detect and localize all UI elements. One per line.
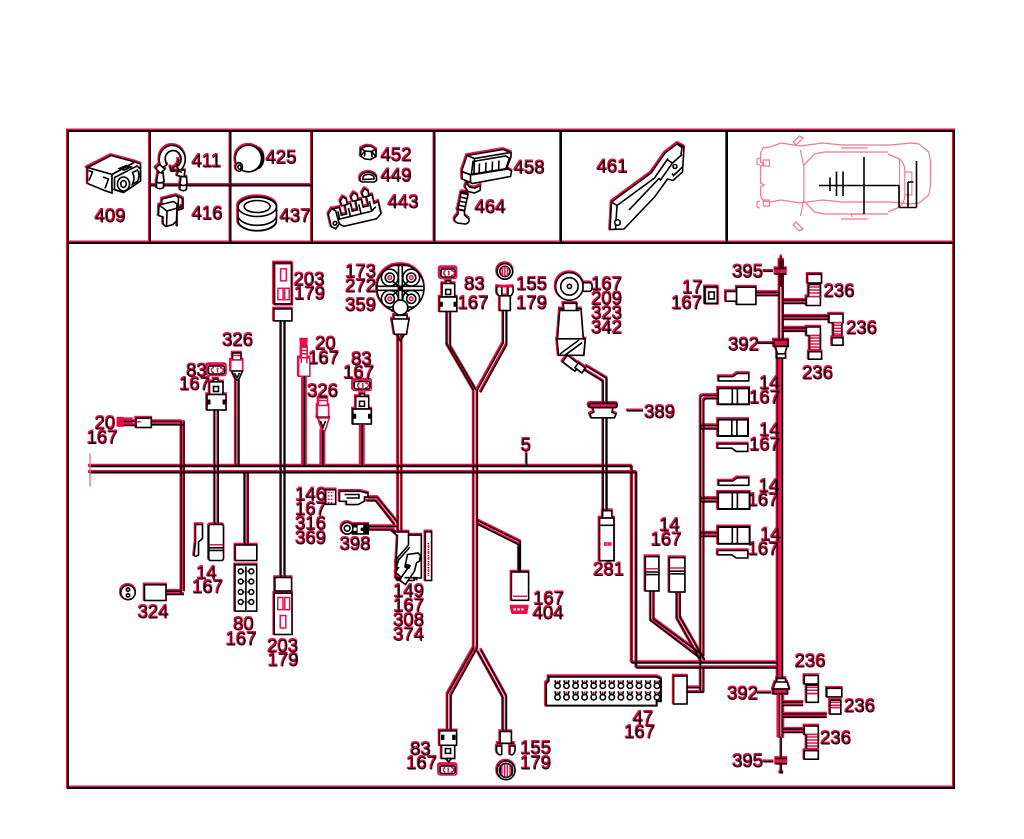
terminal ring 398 [341, 522, 368, 534]
svg-text:179: 179 [295, 283, 326, 304]
svg-text:236: 236 [847, 318, 878, 339]
connector 83/167 no.1 icon [207, 365, 226, 376]
connector into trunk (17/167) [726, 287, 780, 304]
svg-text:395: 395 [733, 751, 764, 772]
svg-text:167: 167 [226, 629, 257, 650]
frame: outer border [68, 131, 954, 788]
connector 326 no.1 [231, 353, 243, 380]
connector 83/167 no.2 icon [353, 380, 372, 391]
svg-text:389: 389 [645, 402, 676, 423]
stub to conn no.2 [701, 426, 719, 429]
svg-text:392: 392 [728, 683, 759, 704]
svg-text:236: 236 [824, 281, 855, 302]
trunk branch 236 no.2 [783, 316, 829, 319]
part 464 icon (screw) [454, 192, 469, 225]
relay 149/167/308/374 [393, 532, 421, 585]
svg-text:236: 236 [803, 363, 834, 384]
clip 395 (top crossbar) [775, 269, 787, 275]
svg-text:236: 236 [821, 728, 852, 749]
svg-text:167: 167 [672, 293, 703, 314]
terminal 324 [121, 585, 166, 601]
wire: 326 no.1 to bus [236, 380, 239, 466]
terminal blade 14 (left, beside strip) [194, 525, 203, 557]
svg-text:395: 395 [733, 261, 764, 282]
svg-text:167: 167 [344, 362, 375, 383]
svg-text:272: 272 [346, 276, 377, 297]
svg-text:167: 167 [309, 348, 340, 369]
main bus wire (node 5), horizontal double line [89, 466, 636, 472]
svg-text:167: 167 [748, 538, 779, 559]
blade 14 no.1 (above) [719, 373, 749, 381]
icon 17/167 (square) [705, 287, 718, 304]
trunk branch 236 no.5 [783, 714, 827, 717]
wire: branch from Y-wire to 167/404 [477, 521, 520, 573]
svg-text:281: 281 [594, 559, 625, 580]
part 443 icon (cable comb) [325, 186, 382, 229]
switch assembly 167/209/323/342 [556, 273, 592, 373]
wire: bus corner to 281 [603, 472, 607, 511]
fuse box 47/167 [546, 677, 661, 706]
connector 83/167 no.1 housing [207, 379, 226, 410]
svg-text:443: 443 [388, 192, 419, 213]
trunk main vertical (double) [779, 346, 781, 682]
frame: header cell dividers [150, 131, 727, 243]
connector strip 14/167 (mid right) [669, 558, 685, 592]
part 409 icon [88, 156, 141, 194]
grommet 392 (bottom) [773, 678, 789, 737]
part 411 icon (clamp) [156, 145, 188, 190]
connector strip (right of relay 149) [425, 532, 431, 581]
wire: 83/167 no.3 down, Y-merge with 155/179 [447, 312, 476, 391]
svg-text:374: 374 [394, 624, 425, 645]
connector right of fuse box [674, 676, 687, 704]
svg-text:398: 398 [340, 534, 371, 555]
fuse box pins [555, 680, 660, 700]
wire: 83/167 no.2 to bus (red) [361, 424, 364, 466]
wire: pen terminal diagonal to 173-wire [367, 497, 398, 524]
connector 14/167 no.4 [718, 527, 750, 544]
connector 20/167 (far left) [118, 418, 152, 427]
connector 167/404 [511, 572, 529, 614]
part 425 icon (grommet cone) [235, 145, 263, 172]
blade 14 no.3 (above) [719, 478, 749, 486]
svg-text:5: 5 [521, 435, 531, 456]
svg-text:425: 425 [266, 147, 297, 168]
svg-text:83: 83 [465, 274, 486, 295]
blade 14 no.2 (below) [718, 444, 748, 452]
blade 14 no.4 (below) [718, 551, 748, 559]
wire: bus to 80/167 block [245, 472, 248, 545]
svg-text:167: 167 [87, 427, 118, 448]
wire: 173/272/359 down through bus to relay 149 [398, 334, 402, 531]
trunk branch 236 no.4 [783, 702, 803, 705]
label 389 with leader [627, 410, 643, 412]
svg-text:167: 167 [193, 577, 224, 598]
connector 83/167 (bottom) [439, 731, 457, 775]
car: harness wiring overlay (black) [819, 157, 917, 214]
connector 83/167 no.3 (top) icon [440, 268, 457, 279]
part 461 icon (bracket) [610, 144, 684, 230]
wire: Y split at bottom to 83/167 and 155/179 [447, 648, 506, 732]
svg-text:236: 236 [845, 696, 876, 717]
connector strip 14/167 (left) [209, 525, 224, 561]
svg-text:452: 452 [381, 145, 412, 166]
svg-text:167: 167 [407, 753, 438, 774]
rail top corner and stub to conn 14/167 no.1 [701, 395, 719, 662]
svg-text:392: 392 [729, 334, 760, 355]
svg-text:324: 324 [138, 602, 169, 623]
svg-text:326: 326 [308, 381, 339, 402]
svg-text:416: 416 [192, 203, 223, 224]
connector 14/167 no.2 [718, 420, 748, 436]
connector 20/167 no.2 (red) [299, 339, 310, 376]
connector strip 14/167 (mid left) [645, 557, 659, 591]
connector 14/167 no.1 [718, 388, 749, 404]
svg-text:167: 167 [748, 490, 779, 511]
connector 14/167 no.3 [718, 492, 750, 509]
svg-text:461: 461 [597, 156, 628, 177]
svg-text:411: 411 [192, 151, 222, 172]
trunk bottom single + clip 395 (bottom) [778, 694, 783, 738]
connector 203/179 no.2 [274, 593, 292, 634]
connector 83/167 no.2 housing [353, 394, 372, 424]
connector 326 no.2 (red) [317, 398, 330, 431]
svg-text:464: 464 [475, 197, 506, 218]
connector 80/167 cap [235, 545, 256, 561]
part 458 icon (fuse block) [462, 150, 512, 194]
bus corner down-right to lower bus [632, 466, 777, 668]
wire: fuse connector to rail [687, 662, 704, 692]
connector 155/179 (bottom) [496, 732, 515, 780]
wire: 83/167 no.1 down through bus to 14/167 strip [215, 410, 219, 525]
svg-text:155: 155 [517, 274, 548, 295]
connector 203/179 no.2 upper box [275, 578, 292, 592]
frame: header bottom line [68, 242, 954, 244]
svg-text:458: 458 [514, 157, 545, 178]
svg-text:236: 236 [795, 651, 826, 672]
svg-text:404: 404 [533, 603, 564, 624]
connector 203/179 no.1 [274, 263, 292, 321]
svg-text:359: 359 [346, 295, 377, 316]
svg-text:167: 167 [180, 374, 211, 395]
grommet 389 [588, 403, 618, 418]
wire: 326 no.2 to bus [321, 431, 324, 466]
wire: 20/167 left connector to 324 drop [151, 422, 184, 595]
connector 155/179 (top) [497, 264, 514, 311]
wire: 203/179 no.1 down through bus to 203/179 no.2 [281, 321, 285, 578]
wire: 20/167 no.2 to bus (red) [303, 376, 306, 465]
svg-text:449: 449 [381, 165, 412, 186]
svg-text:167: 167 [750, 387, 781, 408]
stub to conn no.3 [701, 498, 719, 501]
connector 83/167 no.3 housing [440, 281, 457, 312]
svg-text:167: 167 [458, 293, 489, 314]
stub to conn no.4 [701, 533, 719, 536]
part 416 icon (clip) [159, 196, 184, 228]
trunk branch 236 no.6 [783, 729, 803, 732]
svg-text:167: 167 [625, 722, 656, 743]
icon grid (beside 146) [326, 490, 336, 505]
svg-text:437: 437 [280, 206, 311, 227]
grommet 392 (top) [774, 340, 788, 358]
part 452 icon (nut) [361, 146, 377, 160]
svg-text:369: 369 [296, 528, 327, 549]
svg-text:179: 179 [517, 293, 548, 314]
connector 80/167 block [235, 565, 257, 611]
svg-text:409: 409 [95, 206, 126, 227]
wire: 398 to 173-wire [368, 527, 398, 530]
terminal (pen shaped) 146/167/316/369 [340, 491, 369, 504]
connector 173/272/359 (round multi-pin) [377, 264, 424, 340]
car outline (pink, top-right header cell) [757, 136, 930, 231]
svg-text:179: 179 [521, 753, 552, 774]
connector 281 [600, 511, 615, 561]
wire: 14/167 strips converge to rail corner [651, 591, 705, 663]
part 437 icon (grommet ring) [238, 197, 277, 231]
svg-text:167: 167 [651, 529, 682, 550]
svg-text:342: 342 [592, 317, 623, 338]
wire: switch assembly down to grommet 389 and bus to 281 [583, 366, 607, 511]
svg-text:326: 326 [223, 330, 254, 351]
svg-text:179: 179 [268, 650, 299, 671]
svg-text:167: 167 [750, 434, 781, 455]
trunk branch 236 no.3 [783, 328, 806, 331]
trunk branch 236 no.1 [783, 300, 806, 303]
bus left end marks (pink) [89, 454, 91, 487]
part 449 icon (washer) [360, 172, 377, 182]
